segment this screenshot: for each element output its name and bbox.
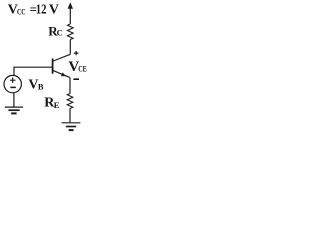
svg-text:12: 12 <box>36 3 47 18</box>
resistor RE <box>67 94 73 109</box>
wire below RE <box>69 109 71 123</box>
svg-text:C: C <box>57 28 63 38</box>
ground (RE) <box>62 123 81 130</box>
VCC supply arrow <box>69 8 71 25</box>
+ inside VB source <box>10 77 16 83</box>
label RC <box>48 23 63 38</box>
transistor Q1 base bar <box>52 58 54 73</box>
- inside VB source <box>10 86 15 88</box>
label VB <box>28 78 44 93</box>
svg-text:B: B <box>38 82 44 92</box>
label VCE <box>68 59 87 75</box>
svg-text:E: E <box>54 100 60 110</box>
voltage source VB circle <box>4 75 21 92</box>
wire emitter lead down <box>69 78 71 94</box>
transistor Q1 collector diagonal <box>53 54 70 61</box>
wire collector lead <box>69 40 71 55</box>
wire corner down to VB source <box>13 67 15 76</box>
transistor Q1 emitter diagonal <box>53 71 70 78</box>
svg-text:CE: CE <box>78 63 87 73</box>
svg-text:CC: CC <box>17 7 26 17</box>
wire below VB source <box>13 93 15 107</box>
transistor emitter arrowhead <box>61 72 66 76</box>
label + (VCE) <box>74 51 79 55</box>
label RE <box>44 96 60 111</box>
svg-text:V: V <box>49 3 59 18</box>
label - (VCE) <box>73 78 79 80</box>
ground (VB) <box>5 107 23 113</box>
wire base lead <box>14 66 53 68</box>
resistor RC <box>68 24 74 40</box>
node VCC label "Vcc = 12 V" <box>8 2 59 18</box>
